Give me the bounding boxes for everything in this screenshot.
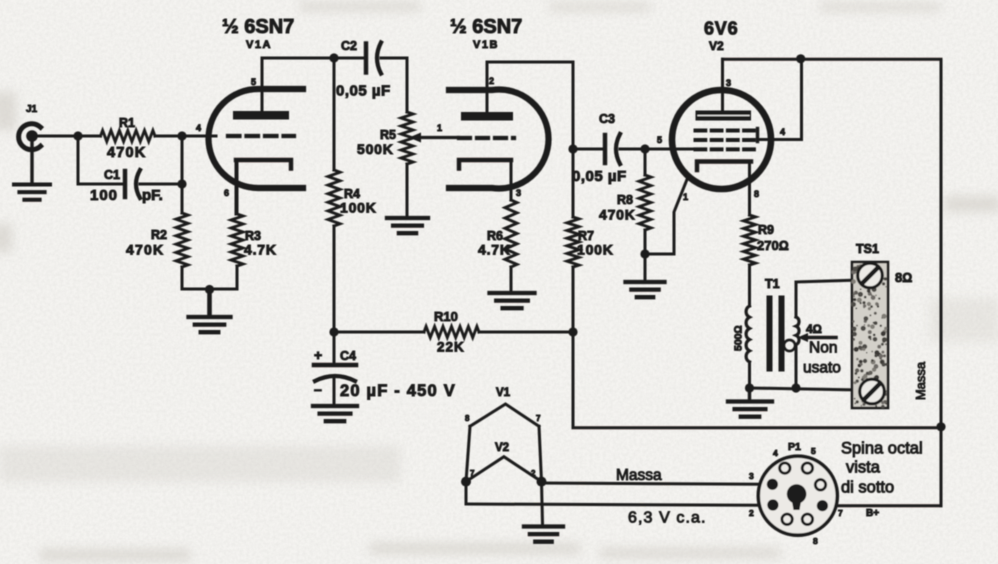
svg-text:4: 4	[773, 448, 778, 458]
svg-text:R8: R8	[617, 193, 633, 207]
svg-text:2: 2	[531, 469, 536, 478]
svg-text:usato: usato	[803, 360, 841, 377]
svg-text:C2: C2	[341, 39, 357, 53]
svg-text:0,05 µF: 0,05 µF	[336, 83, 391, 100]
svg-text:500Ω: 500Ω	[733, 325, 745, 351]
svg-text:100: 100	[90, 187, 118, 204]
svg-text:R9: R9	[758, 223, 774, 237]
svg-text:2: 2	[489, 76, 494, 86]
svg-text:4: 4	[780, 127, 785, 137]
svg-text:3: 3	[726, 78, 731, 88]
svg-text:100K: 100K	[577, 242, 614, 258]
svg-text:4: 4	[196, 123, 201, 133]
svg-text:270Ω: 270Ω	[757, 238, 789, 253]
svg-text:5: 5	[657, 135, 662, 145]
svg-text:J1: J1	[26, 104, 38, 115]
svg-text:6: 6	[224, 188, 229, 198]
svg-text:Spina octal: Spina octal	[841, 440, 923, 458]
svg-text:22K: 22K	[437, 340, 465, 355]
svg-text:4Ω: 4Ω	[806, 322, 822, 336]
svg-text:R2: R2	[151, 228, 167, 242]
svg-text:1: 1	[683, 192, 688, 202]
svg-text:B+: B+	[866, 508, 879, 519]
svg-text:T1: T1	[765, 277, 780, 291]
svg-text:Massa: Massa	[616, 467, 662, 484]
svg-text:V2: V2	[495, 442, 509, 454]
svg-text:pF.: pF.	[142, 187, 163, 204]
svg-text:1: 1	[437, 123, 442, 133]
svg-text:8: 8	[754, 189, 759, 199]
svg-text:2: 2	[749, 508, 754, 518]
svg-text:3: 3	[749, 471, 754, 481]
svg-text:470K: 470K	[126, 242, 164, 258]
svg-text:P1: P1	[788, 441, 801, 453]
svg-text:TS1: TS1	[856, 242, 879, 256]
svg-text:470K: 470K	[599, 207, 636, 223]
svg-text:di sotto: di sotto	[841, 479, 894, 497]
svg-text:6,3 V c.a.: 6,3 V c.a.	[628, 510, 707, 527]
svg-text:R10: R10	[434, 309, 458, 324]
svg-text:V1B: V1B	[473, 39, 499, 51]
svg-text:+: +	[314, 347, 322, 363]
svg-text:7: 7	[470, 469, 475, 478]
svg-text:0,05 µF: 0,05 µF	[572, 168, 627, 185]
svg-text:100K: 100K	[340, 200, 377, 216]
svg-text:4.7K: 4.7K	[244, 242, 277, 258]
svg-text:5: 5	[251, 77, 256, 87]
svg-text:Non: Non	[809, 340, 837, 357]
svg-text:3: 3	[516, 188, 521, 198]
svg-text:7: 7	[536, 414, 541, 423]
svg-text:½ 6SN7: ½ 6SN7	[222, 16, 294, 38]
svg-text:20 µF - 450 V: 20 µF - 450 V	[340, 382, 456, 400]
svg-text:8Ω: 8Ω	[895, 270, 912, 285]
svg-text:5: 5	[811, 446, 816, 456]
svg-text:–: –	[314, 381, 322, 397]
svg-text:R1: R1	[119, 116, 135, 130]
svg-text:500K: 500K	[357, 141, 394, 157]
svg-text:7: 7	[838, 508, 843, 518]
svg-text:C4: C4	[340, 349, 356, 363]
svg-text:vista: vista	[846, 459, 881, 477]
svg-text:470K: 470K	[107, 145, 146, 161]
svg-text:8: 8	[465, 414, 470, 423]
svg-text:V2: V2	[709, 39, 724, 53]
svg-text:4.7K: 4.7K	[478, 242, 511, 258]
svg-text:C3: C3	[599, 112, 615, 126]
svg-text:R5: R5	[380, 128, 396, 142]
svg-text:V1A: V1A	[246, 39, 272, 51]
svg-text:Massa: Massa	[913, 361, 928, 400]
svg-text:V1: V1	[496, 387, 511, 399]
svg-text:½ 6SN7: ½ 6SN7	[450, 16, 522, 38]
svg-text:6V6: 6V6	[704, 19, 738, 39]
svg-text:C1: C1	[104, 168, 120, 182]
svg-text:8: 8	[813, 536, 818, 546]
